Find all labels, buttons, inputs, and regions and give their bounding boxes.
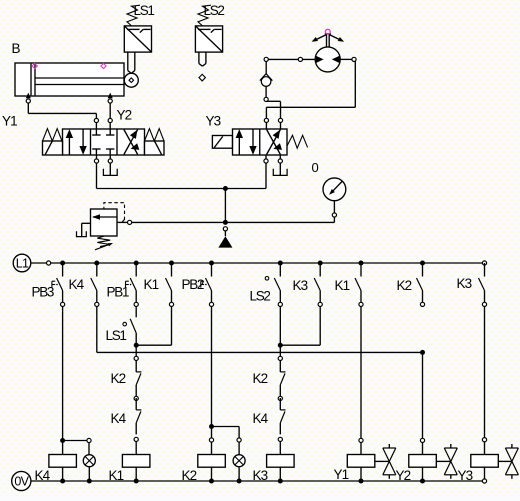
pump shaft knob [325,29,330,34]
coil K4 wire top [62,441,64,455]
check valve outlet node [264,97,268,101]
wire K3 coil to 0V [279,467,281,481]
svg-text:K1: K1 [335,278,350,293]
pump drive arrow right [329,35,344,42]
limit switch LS1 [124,5,151,52]
valve Y1Y2 label Y2 [117,108,132,123]
wire to K3 coil [279,442,281,455]
wire Y3 T down [279,163,281,175]
svg-text:K2: K2 [253,371,268,386]
wire branch to lamp1 [63,440,87,442]
junction K4 coil branch [60,438,65,443]
node below K4 right [278,437,282,441]
cylinder B [15,63,125,96]
node above K2 right [278,356,282,360]
wire K3 right down [484,307,486,438]
suction corner node [264,57,268,61]
wire P to lower line [224,189,226,223]
wire Y3 coil to 0V [484,467,486,479]
svg-text:K3: K3 [293,278,308,293]
lamp H1 [83,455,95,467]
wire LS2 to K2 contact [279,345,281,356]
wire K2 coil top [211,427,213,455]
node on return line [352,57,356,61]
position marker right [101,63,106,68]
K1 second label [335,278,350,293]
gauge stem wire [333,201,335,223]
rail junction K3 [318,261,323,266]
valve actuator symbol Y2 [444,444,457,479]
svg-text:0V: 0V [14,475,29,489]
junction K2 0V [209,479,214,484]
node above Y2 coil [420,438,424,442]
LS2 marker diamond [199,74,205,81]
wire K3 contact down [319,307,321,346]
svg-text:L1: L1 [16,257,29,271]
pump drive arrow left [312,35,327,42]
wire below check valve [265,86,267,97]
svg-text:Y1: Y1 [2,114,17,129]
wire to K1 coil [135,442,137,455]
svg-text:K2: K2 [111,371,126,386]
wire lamp1 down [88,443,90,455]
valve actuator symbol Y1 [383,444,396,479]
K1 contact label [144,277,159,292]
junction K2 coil branch [209,424,214,429]
lower pressure line [132,221,335,223]
svg-text:K1: K1 [144,277,159,292]
rail junction K2 [420,261,425,266]
tank symbol at relief valve [77,231,87,236]
valve Y1/Y2 port B node [108,118,112,122]
gauge stem node [332,213,336,217]
lamp2 branch node [237,438,241,442]
wire Y3 coil top [484,442,486,455]
relief valve outlet wire [117,221,128,223]
tank triangle [218,236,232,247]
rail 0V [31,480,483,482]
coil K4 [49,455,77,468]
junction Y1 0V [359,479,364,484]
PB1 label [107,285,129,300]
check valve [260,74,273,87]
tank symbol under valve Y3 [273,169,287,176]
wire K1b down [360,307,362,439]
link wire A [97,351,423,353]
PB3 label [32,285,54,300]
K2 top label [397,278,412,293]
wire cylinder left to valve A [28,103,96,118]
wire branch lamp2 [212,427,240,439]
wire Y3 coil to valve symbol [498,460,512,462]
rail L1 end node [482,261,486,265]
Y2 coil label [396,468,411,483]
K4 series label left [111,411,127,426]
contact K4 [91,263,99,307]
svg-text:K3: K3 [457,276,472,291]
wire Y1 coil to valve symbol [375,460,390,462]
coil Y2 [409,455,437,468]
valve Y3 crossed position [267,130,282,155]
relief valve V1 [91,209,118,236]
junction link A at K2 column [420,350,425,355]
relief valve spring [95,236,113,250]
wire lamp1 to 0V [88,467,90,481]
wire pump suction [266,58,315,60]
LS1 label [134,3,155,18]
wire PB1 to LS1 [135,307,137,318]
svg-text:0: 0 [312,160,319,175]
valve Y3 top stubs [266,123,280,130]
cylinder port node left [26,99,30,103]
svg-text:K4: K4 [253,411,269,426]
wire cylinder right to valve B [109,103,111,118]
svg-text:K4: K4 [69,277,85,292]
link wire LS2-K3 [280,344,320,346]
junction lamp1 0V [87,479,92,484]
valve Y1/Y2 port stubs bottom [97,155,111,159]
junction K3 0V [278,479,283,484]
wire down to check valve [265,62,267,74]
wire K1 coil to 0V [135,467,137,481]
wire Y2 coil to valve symbol [436,460,451,462]
svg-text:PB2: PB2 [182,277,204,292]
valve Y1/Y2 port A node [94,118,98,122]
contact K4 series left [136,398,141,434]
valve Y1Y2 label Y1 [2,114,17,129]
wire Y2 coil top [422,443,424,455]
coil K4 wire bottom [62,467,64,481]
rail junction K4 [94,261,99,266]
valve Y1/Y2 crossed position [124,130,139,155]
junction P line [223,186,228,191]
wire lamp2 to 0V [238,467,240,481]
wire Y1 coil top [360,443,362,455]
wire lamp2 down [238,442,240,455]
solenoid Y2 attachment [145,129,165,155]
pushbutton PB2 [201,263,214,307]
wire PB3 to K4 coil [62,307,64,441]
valve Y1/Y2 port T node [108,159,112,163]
wire K1 contact down [171,307,173,346]
lamp1 branch node [87,438,91,442]
svg-text:K2: K2 [397,278,412,293]
LS2 label [204,3,225,18]
K3 contact label [293,278,308,293]
junction K4 0V [60,479,65,484]
tank connection node [223,227,227,231]
valve Y1/Y2 port P node [94,159,98,163]
wire LS1 to K2 contact [135,345,137,356]
valve Y1/Y2 middle closed position [92,129,114,155]
rail junction PB1 [134,261,139,266]
valve Y3 bottom stubs [266,155,280,159]
K2 coil label [182,468,197,483]
wire valve T down [109,163,111,175]
valve actuator symbol Y3 [505,444,518,479]
cylinder B label [12,41,21,56]
wire LS2 down [279,307,281,346]
coil Y1 [347,455,375,468]
coil K2 [198,455,226,468]
rail 0V end node [482,479,486,483]
PB2 label [182,277,204,292]
wire PB2 down [211,307,213,427]
wire Y2 coil to 0V [422,467,424,481]
contact K1 second [355,263,363,307]
valve Y1/Y2 port stubs top [96,123,110,129]
wire valve P down [96,163,98,188]
pressure gauge [323,178,346,201]
svg-text:LS2: LS2 [204,3,225,18]
svg-text:PB1: PB1 [107,285,129,300]
valve Y3 body [233,129,288,155]
Y3 coil label [458,468,473,483]
LS1 contact label [106,328,127,343]
relief valve outlet node [128,220,132,224]
svg-text:LS1: LS1 [106,328,127,343]
contact LS1 [123,319,136,343]
K4 series label right [253,411,269,426]
K4 coil label [35,468,51,483]
return line from pump [266,59,355,118]
svg-text:K4: K4 [111,411,127,426]
valve Y3 top port nodes [264,118,282,122]
contact K2 top [417,263,425,307]
svg-text:Y2: Y2 [117,108,132,123]
svg-text:LS1: LS1 [134,3,155,18]
svg-text:LS2: LS2 [250,289,271,304]
rail junction LS2 [278,261,283,266]
svg-text:PB3: PB3 [32,285,54,300]
valve Y3 spring [287,135,308,148]
relief valve pilot dashed line [104,203,125,223]
LS2 contact label [250,289,271,304]
wire Y3 P down [265,163,267,188]
solenoid Y1 attachment [43,129,63,155]
K2 series label left [111,371,126,386]
svg-text:Y3: Y3 [206,114,221,129]
tank symbol under valve Y1/Y2 [103,169,117,176]
rail junction K1 [169,261,174,266]
K2 series label right [253,371,268,386]
junction lamp2 0V [237,479,242,484]
contact LS2 [265,263,282,307]
junction LS2 K3 link [278,343,283,348]
wire to tank triangle [224,231,226,236]
rail L1 source [13,254,31,272]
junction LS1 K1 link [134,343,139,348]
K4 contact label [69,277,85,292]
cylinder port arrow left [26,93,31,99]
node above K2 coil [209,438,213,442]
wire Y1 coil to 0V [360,467,362,481]
contact K3 right [479,263,487,307]
gauge label 0 [312,160,319,175]
junction Y2 0V [420,479,425,484]
rail 0V source [12,471,31,490]
valve Y3 label [206,114,221,129]
pushbutton PB3 [52,263,65,307]
svg-text:B: B [12,41,21,56]
coil Y3 [471,455,499,468]
K3 coil label [253,468,268,483]
contact K4 series right [280,398,285,434]
rail L1 start node [47,261,51,265]
coil K3 [267,455,295,468]
wire K4 contact down [96,307,98,353]
valve Y3 parallel position [236,129,257,155]
pressure line P [97,188,267,190]
node above Y3 coil [482,438,486,442]
pump M1 [315,34,340,72]
wire K2 coil to 0V [211,467,213,481]
limit switch LS2 [195,5,222,52]
junction K1 0V [134,479,139,484]
link wire LS1-K1 [136,344,171,346]
rail L1 [31,262,483,264]
contact K2 series left [136,360,141,396]
rail junction PB2 [209,261,214,266]
K3 right label [457,276,472,291]
node above Y1 coil [359,438,363,442]
contact K3 [314,263,322,307]
svg-text:Y1: Y1 [334,467,349,482]
wire K2 column lower [422,352,424,438]
contact K1 [166,263,174,307]
cylinder port node right [108,99,112,103]
lamp H2 [233,455,245,467]
cylinder port arrow right [108,93,113,99]
K1 coil label [109,468,124,483]
junction lower line [223,220,228,225]
solenoid Y3 [212,136,232,149]
position marker left [32,63,37,68]
roller on cylinder rod [124,73,138,87]
node on suction wire [298,57,302,61]
LS2 plunger [199,52,206,66]
LS1 plunger [128,52,135,73]
rail junction K1b [359,261,364,266]
rail junction PB3 [60,261,65,266]
node between K2 K4 left [134,396,138,400]
Y1 coil label [334,467,349,482]
valve Y3 bottom port nodes [264,159,283,163]
node below K4 left [134,437,138,441]
valve Y1/Y2 left position arrows [66,129,87,155]
relief valve left port wire [82,223,91,236]
valve Y1/Y2 body [63,129,145,155]
wire jog to Y3 right port [267,101,281,118]
node between K2 K4 right [278,396,282,400]
contact K2 series right [280,360,285,396]
coil K1 [122,455,149,468]
node above K2 contact [134,356,138,360]
pushbutton PB1 [126,263,139,307]
